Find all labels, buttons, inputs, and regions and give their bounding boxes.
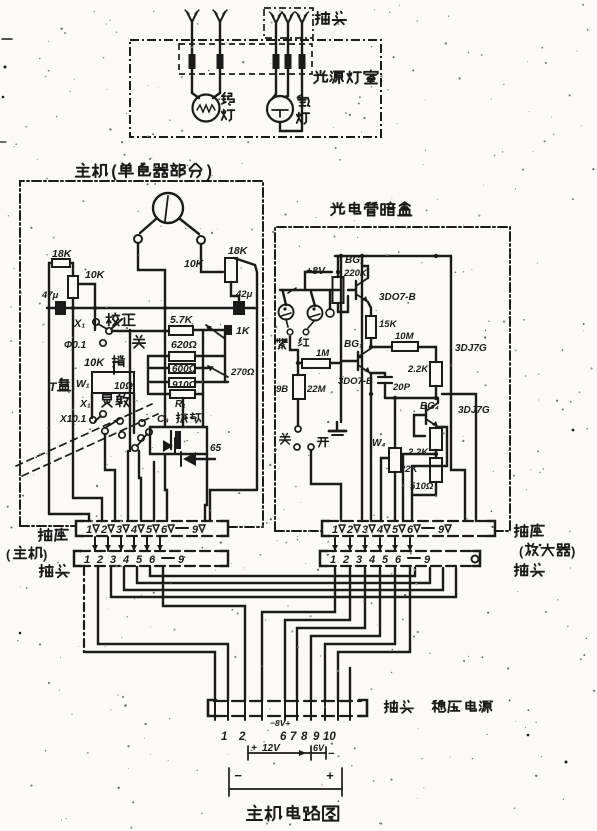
wire harness run 2: [163, 567, 245, 701]
svg-text:9: 9: [178, 554, 185, 566]
resistor 2.2K upper (vertical): [430, 347, 442, 398]
label (放大器) amplifier: [519, 543, 575, 559]
label 插头 (plug) left: [40, 565, 69, 578]
socket CZ2 (amplifier) connector strip: [322, 521, 495, 536]
transistor BG1: [341, 349, 370, 373]
plug CT2 (amplifier) connector strip: [320, 551, 480, 566]
label 关 (off) right box: [280, 434, 291, 444]
svg-text:): ): [571, 544, 575, 559]
label 5.7K: [170, 314, 194, 326]
meter M1 (galvanometer): [153, 193, 183, 223]
phototube cathode contacts: [286, 319, 315, 335]
wire row y356: [148, 355, 225, 357]
wire harness run 5: [137, 567, 430, 583]
svg-text:1: 1: [330, 554, 336, 566]
svg-text:2: 2: [96, 554, 103, 566]
svg-text:2.2K: 2.2K: [407, 447, 429, 458]
wire W1 left leg: [91, 393, 93, 418]
svg-text:6: 6: [395, 554, 402, 566]
wire harness run 9: [297, 568, 365, 701]
wire left rail to socket pin2: [49, 307, 89, 521]
wire cathode node to 1M: [290, 335, 302, 365]
wire 2.2K bottom node to strip: [403, 452, 438, 521]
wire cap-diode group bottom y454: [150, 453, 207, 455]
label 光电管暗盒 (photo tube dark box) title: [331, 202, 411, 215]
svg-text:−: −: [234, 768, 242, 783]
wire switch to socket pin4: [105, 434, 115, 521]
capacitor C3 (electrolytic): [171, 431, 181, 449]
wire harness run 6: [150, 567, 415, 576]
svg-text:X₁: X₁: [79, 398, 91, 410]
right inner rail x474: [442, 394, 476, 521]
resistor 1M (horizontal): [302, 359, 330, 368]
svg-text:2.2K: 2.2K: [407, 364, 429, 375]
wire cap-diode group top y427: [150, 426, 207, 428]
wire to socket pin7: [153, 462, 155, 521]
label 3DJ7G lower: [458, 405, 490, 416]
transistor BG2: [348, 266, 371, 316]
capacitor C2 42uF right (filled): [233, 301, 245, 315]
wire plug J2 to deuterium lamp: [272, 36, 288, 99]
label 插头 (plug) power: [385, 701, 413, 713]
pins between socket and plug right: [332, 538, 413, 551]
wire W1 wiper to rail: [114, 362, 118, 374]
label 510 ohm: [410, 481, 434, 492]
svg-text:220K: 220K: [343, 268, 368, 279]
label W1: [76, 378, 90, 390]
svg-text:510Ω: 510Ω: [410, 481, 434, 492]
wire 10K pot tap: [78, 284, 95, 307]
resistor 10M (horizontal): [371, 342, 436, 351]
svg-text:3DJ7G: 3DJ7G: [458, 405, 490, 416]
wire BG4 collector: [437, 398, 439, 403]
plug pins J1 (tungsten lamp plug): [185, 10, 227, 38]
pins between socket and plug left: [92, 537, 163, 551]
label 9B: [276, 384, 288, 395]
svg-text:1: 1: [86, 524, 92, 536]
svg-text:270Ω: 270Ω: [230, 367, 255, 378]
label 270 ohm: [230, 367, 255, 378]
selector switch S2 contacts: [100, 411, 152, 451]
power connector pin stub 10: [349, 668, 351, 702]
wire BG4 base loop: [414, 415, 425, 436]
svg-text:42μ: 42μ: [235, 289, 253, 300]
svg-text:4: 4: [122, 554, 129, 566]
wire 18K to left rail: [49, 263, 52, 307]
wire W1 right leg: [133, 393, 135, 433]
wire harness run 10: [311, 568, 380, 701]
svg-text:10K: 10K: [85, 269, 106, 281]
label 15K: [379, 319, 398, 330]
plug CT2 right end terminal: [472, 556, 479, 563]
wire plug J1 to tungsten lamp: [192, 38, 220, 98]
photo tube dark box enclosure (dash-dot): [275, 227, 510, 531]
svg-text:2: 2: [342, 554, 349, 566]
svg-text:BG₁: BG₁: [344, 339, 363, 350]
resistor 2.2K lower (vertical): [430, 427, 442, 458]
label 10K left: [85, 269, 106, 281]
ground rail x341: [340, 256, 342, 422]
svg-text:2: 2: [238, 731, 246, 743]
svg-text:12V: 12V: [262, 743, 281, 754]
wire switch to socket right: [311, 450, 341, 521]
wire stack bottom to group: [182, 398, 184, 427]
svg-text:R₁: R₁: [175, 399, 186, 410]
label 开 (on) right box: [318, 438, 329, 447]
svg-text:1M: 1M: [316, 348, 330, 359]
svg-text:C₃: C₃: [157, 413, 169, 425]
label 10M: [395, 331, 415, 342]
wire 20P top to BG1 collector: [0, 0, 1, 1]
svg-text:65: 65: [210, 443, 222, 454]
svg-text:+: +: [251, 743, 257, 754]
svg-text:6: 6: [161, 524, 168, 536]
node bus horizontal wire y308: [47, 307, 257, 309]
svg-text:9: 9: [313, 731, 320, 743]
svg-text:6: 6: [280, 731, 287, 743]
svg-text:2: 2: [346, 524, 353, 536]
wire right rail to socket: [210, 490, 257, 521]
label 18K left: [52, 248, 73, 260]
wire harness run 3: [111, 567, 456, 597]
svg-text:4: 4: [368, 554, 375, 566]
resistor 15K (vertical): [366, 316, 376, 347]
diode D1: [163, 438, 175, 453]
mechanical link dashed diagonal 2: [22, 414, 158, 476]
svg-text:3DO7-B: 3DO7-B: [379, 292, 416, 303]
svg-text:1: 1: [221, 731, 227, 743]
resistor R3 620 ohm (horizontal): [169, 352, 195, 361]
resistor 18K left (horizontal): [52, 259, 70, 267]
dash-dot outline around plug J2: [264, 8, 313, 38]
svg-text:−8V+: −8V+: [270, 718, 290, 728]
wire row y368: [148, 367, 208, 369]
label BG4: [420, 401, 439, 412]
label 10K right: [184, 258, 205, 270]
label 3DO7-B lower: [338, 376, 373, 387]
svg-text:5.7K: 5.7K: [170, 314, 194, 326]
svg-text:18K: 18K: [228, 245, 249, 257]
meter terminal right: [180, 219, 205, 244]
potentiometer W4 (vertical): [381, 398, 401, 521]
resistor R6 (horizontal): [170, 390, 195, 398]
phototube V2 (red): [308, 306, 323, 321]
right rail wire x257: [256, 308, 258, 490]
svg-text:3DO7-B: 3DO7-B: [338, 376, 373, 387]
label R1 designator: [175, 399, 186, 410]
label 1M: [316, 348, 330, 359]
svg-text:620Ω: 620Ω: [171, 339, 197, 351]
wire row y394: [150, 393, 203, 395]
label C3: [157, 413, 169, 425]
wire diode rail to socket pin9: [205, 462, 207, 521]
label 氢灯 (deuterium lamp): [297, 96, 310, 124]
wire BG4 emitter to rail: [412, 427, 447, 521]
label 22M: [306, 384, 327, 395]
svg-text:6: 6: [407, 524, 414, 536]
pot wiper arrow A2: [208, 366, 228, 377]
label 47 uF left: [41, 290, 59, 301]
resistor R5 910 ohm (horizontal): [169, 378, 197, 391]
svg-text:6: 6: [149, 554, 156, 566]
wire meter right to resistor chain: [201, 244, 223, 272]
capacitor 20P: [370, 373, 392, 398]
power plug pin numbers: [221, 731, 336, 743]
label 插座 (socket) left: [39, 528, 68, 541]
label 稳压电源 (stabilized power supply): [432, 701, 492, 713]
resistor 220K (vertical): [333, 256, 349, 312]
label 灵敏度 (sensitivity): [79, 394, 129, 410]
label 关 (off) switch: [133, 336, 146, 348]
wire row y330: [112, 330, 225, 331]
svg-text:1: 1: [332, 524, 338, 536]
resistor R2 5.7K (horizontal): [169, 326, 193, 335]
wire harness run 8: [285, 568, 350, 701]
label 6.5: [210, 443, 222, 454]
switch S1 contact X1: [73, 318, 122, 334]
wire meter left to divider: [138, 243, 165, 308]
svg-text:5: 5: [382, 554, 389, 566]
wire harness run 12: [338, 568, 410, 701]
wire cap group to socket: [165, 454, 167, 521]
wire phototube anodes to top bus: [280, 288, 339, 309]
wire BG1 emitter down: [370, 373, 372, 521]
phototube V1 (purple): [279, 305, 294, 320]
wire x95 switch feed: [94, 308, 96, 330]
label BG1: [344, 339, 363, 350]
wire harness run 1: [98, 567, 228, 701]
svg-text:3: 3: [110, 554, 116, 566]
resistor 1K (small): [224, 325, 251, 337]
wire BG2 emitter rail: [0, 0, 1, 1]
label 光源灯室 (light source lamp housing): [314, 70, 378, 83]
top bus wire y256: [335, 254, 451, 258]
svg-text:1K: 1K: [236, 325, 251, 337]
svg-text:4: 4: [130, 524, 137, 536]
margin registration marks: [0, 39, 12, 142]
svg-text:3: 3: [356, 554, 362, 566]
plug CT1 (main unit) connector strip: [74, 551, 228, 566]
wire right box to socket x347: [0, 0, 1, 1]
stray marks bottom: [19, 429, 575, 764]
wire x73 to socket pin3: [73, 307, 102, 521]
diode D2: [181, 452, 215, 466]
label 插头 (plug) right: [515, 564, 544, 577]
svg-text:22M: 22M: [306, 384, 327, 395]
label 18K right: [228, 245, 249, 257]
svg-text:+: +: [326, 768, 334, 783]
svg-text:3: 3: [116, 524, 122, 536]
svg-text:+8V: +8V: [306, 265, 326, 277]
mechanical link dashed diagonal 1: [16, 404, 152, 466]
resistor 18K right (vertical): [225, 258, 237, 282]
label phi 0.1: [64, 340, 106, 351]
lamp housing enclosure box (dash-dot): [130, 40, 381, 137]
svg-text:(: (: [111, 163, 117, 181]
label 20P: [392, 382, 411, 393]
svg-text:X₁: X₁: [73, 318, 85, 330]
resistor stack right rail x203: [202, 330, 204, 427]
label -8V+ small: [270, 718, 290, 728]
label 插头 (plug) top right: [316, 12, 347, 25]
label 2.2K upper: [407, 364, 429, 375]
svg-text:5: 5: [392, 524, 399, 536]
wire 20P bottom node: [385, 396, 436, 400]
svg-text:): ): [43, 547, 47, 562]
wire deuterium lamp return: [280, 36, 302, 131]
label 拨动 near C3: [177, 413, 201, 423]
wire harness run 11: [325, 568, 395, 701]
right rail x451: [451, 256, 465, 521]
svg-text:10: 10: [323, 731, 336, 743]
wire row y382: [150, 381, 228, 383]
label 42 uF right: [235, 289, 253, 300]
svg-text:T: T: [49, 380, 58, 394]
svg-text:5: 5: [136, 554, 143, 566]
svg-text:8: 8: [301, 731, 308, 743]
svg-text:1: 1: [84, 554, 90, 566]
svg-text:3DJ7G: 3DJ7G: [455, 343, 487, 354]
dimension line 12V / 6V: [248, 743, 335, 760]
switch S3 contacts on/off: [294, 426, 314, 450]
main unit monochromator enclosure box (dash-dot): [20, 181, 263, 527]
lamp LA1 tungsten lamp: [193, 95, 220, 122]
svg-text:Φ0.1: Φ0.1: [64, 340, 87, 351]
svg-text:4: 4: [376, 524, 383, 536]
wire harness run 1 (dash-dot): [84, 567, 215, 701]
svg-text:9B: 9B: [276, 384, 288, 395]
label 3DJ7G upper: [455, 343, 487, 354]
label T盘 (T dial): [49, 378, 70, 394]
ground symbol right box: [329, 422, 346, 435]
switch S2 arms: [95, 416, 147, 446]
label 620 ohm: [171, 339, 197, 351]
label 220K: [343, 268, 368, 279]
label 主机电路图 (main unit circuit diagram) title: [247, 806, 338, 821]
label 3DO7-B upper: [379, 292, 416, 303]
capacitor C1 electrolytic on bus (filled): [55, 301, 66, 315]
label +8V: [306, 265, 326, 277]
svg-text:W₁: W₁: [76, 378, 90, 390]
svg-text:W₄: W₄: [372, 438, 385, 449]
dimension line main supply + -: [229, 768, 342, 796]
wire to socket pin5: [127, 451, 129, 521]
svg-text:10K: 10K: [184, 258, 205, 270]
resistor 510 ohm (vertical): [412, 458, 442, 495]
svg-text:(: (: [6, 547, 11, 562]
svg-text:20P: 20P: [392, 382, 411, 393]
svg-text:6V: 6V: [313, 743, 325, 753]
resistor 22M (vertical): [293, 363, 305, 425]
wire 15K top junction: [369, 345, 438, 400]
label BG2: [345, 255, 364, 266]
transistor BG4: [414, 403, 438, 427]
wire W4 bottom to socket: [394, 472, 396, 521]
wire 1K rail x225: [224, 330, 226, 382]
wire harness run 4: [124, 567, 443, 590]
wire 18K to 10K pot: [70, 263, 73, 276]
meter terminal left: [134, 219, 156, 243]
svg-text:15K: 15K: [379, 319, 398, 330]
svg-text:47μ: 47μ: [41, 290, 59, 301]
row left stub rail x148: [147, 356, 149, 394]
wire 10K pot bottom: [72, 298, 74, 307]
label 校正 (calibrate): [106, 313, 135, 325]
wire harness run 7: [262, 568, 335, 701]
svg-text:): ): [207, 163, 212, 181]
wire 1M to ground rail: [330, 362, 341, 364]
wire bus y290 up to +8V node: [305, 270, 340, 290]
label 22K: [399, 464, 419, 475]
svg-text:3: 3: [362, 524, 368, 536]
svg-text:9: 9: [438, 524, 445, 536]
label 主机(单色器部分) main unit monochromator title: [76, 163, 212, 181]
resistor 10K pot left (vertical): [68, 276, 78, 298]
label (主机) main unit: [6, 546, 47, 562]
inner dashed box around fuses: [179, 44, 312, 74]
svg-text:−: −: [328, 748, 335, 760]
pot wiper arrow A1: [206, 325, 224, 338]
label 红 (red): [299, 338, 309, 346]
svg-text:9: 9: [424, 554, 431, 566]
svg-text:BG₄: BG₄: [420, 401, 439, 412]
label 2.2K lower: [407, 447, 429, 458]
resistor stack left rail x164: [71, 306, 167, 427]
svg-text:9: 9: [192, 524, 199, 536]
label X10.1 range contact: [59, 414, 96, 425]
svg-text:(: (: [519, 544, 524, 559]
label 插座 (socket) right: [515, 524, 544, 537]
group side rails: [150, 427, 207, 462]
wire BG1 collector chain: [370, 347, 371, 349]
resistor R4 600 ohm (horizontal): [169, 364, 197, 375]
wire to socket pin6: [139, 451, 141, 521]
fuses F1-F5 on lamp wires: [189, 54, 306, 69]
svg-text:10K: 10K: [84, 357, 105, 369]
svg-text:2: 2: [100, 524, 107, 536]
svg-text:10M: 10M: [395, 331, 415, 342]
svg-text:7: 7: [290, 731, 297, 743]
potentiometer W1 (horizontal): [92, 372, 134, 393]
svg-text:600Ω: 600Ω: [172, 364, 197, 375]
lamp LA2 deuterium lamp: [267, 96, 293, 122]
anode contact small circle: [326, 309, 334, 317]
wire 18K right top: [234, 258, 257, 308]
wire transistor chain to strip x362: [358, 256, 362, 521]
plug pins J2 (deuterium lamp plug): [270, 12, 309, 36]
wire 18K right bottom: [231, 282, 239, 301]
label W4: [372, 438, 385, 449]
label 钨灯 (tungsten lamp): [222, 93, 235, 121]
switch rail wire x130: [129, 330, 131, 451]
label 紫 (purple): [277, 339, 288, 349]
power plug CT3 connector strip (stabilized supply): [208, 700, 367, 720]
svg-text:5: 5: [146, 524, 153, 536]
wire right box to socket x407: [0, 0, 1, 1]
socket CZ1 (main unit) connector strip: [76, 521, 228, 536]
label 10K 挡 (range): [84, 356, 124, 370]
